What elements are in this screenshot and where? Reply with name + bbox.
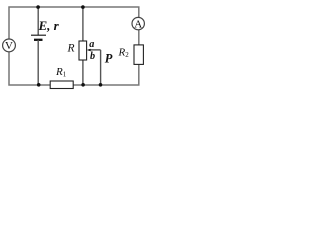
svg-text:b: b bbox=[90, 51, 95, 62]
svg-text:a: a bbox=[89, 39, 94, 50]
svg-text:P: P bbox=[105, 52, 113, 66]
svg-text:A: A bbox=[134, 18, 142, 30]
svg-text:E, r: E, r bbox=[38, 18, 60, 33]
svg-text:V: V bbox=[5, 40, 13, 52]
svg-text:R: R bbox=[67, 43, 75, 55]
